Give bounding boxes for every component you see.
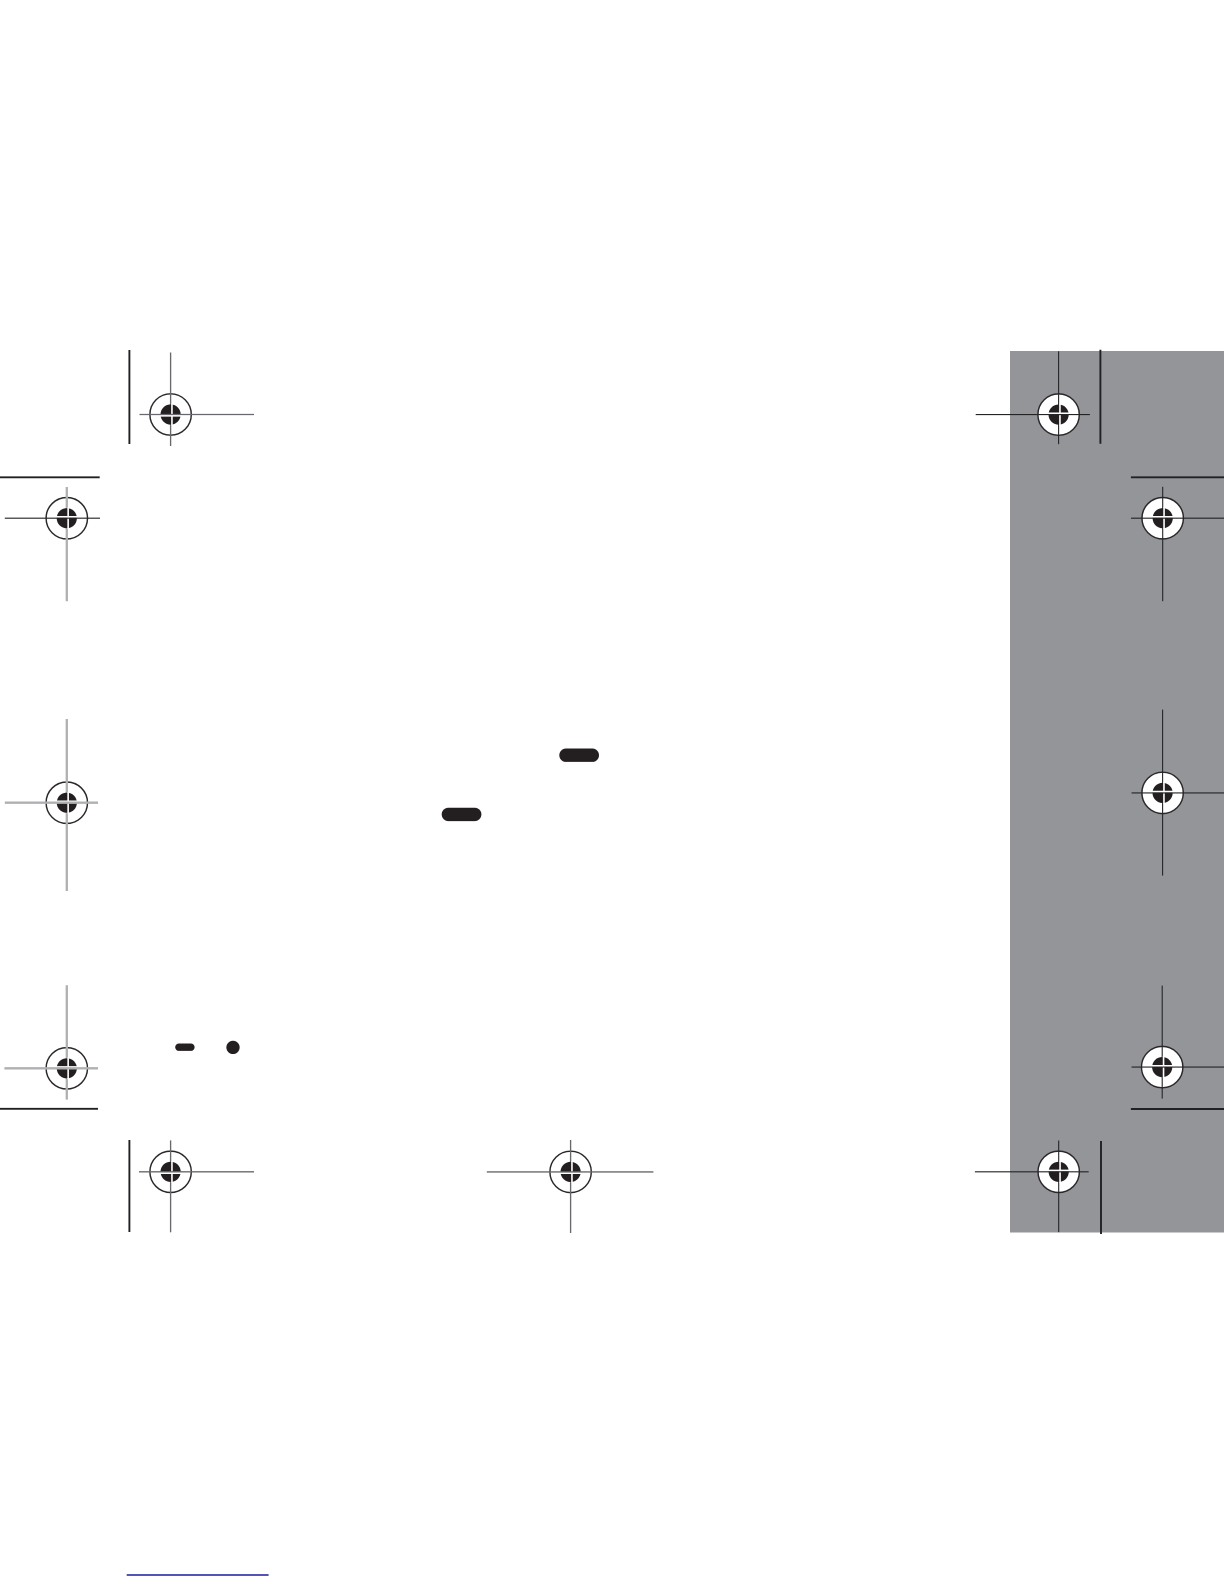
registration mark M9 right middle [1132,710,1224,876]
crop line bottom-right vertical [1100,1141,1102,1234]
crop line left-upper horizontal [0,476,100,478]
gray color bar [1010,351,1224,1233]
registration mark M6 bottom center [487,1140,654,1233]
crop line bottom-left vertical [128,1140,130,1232]
dash D3 [175,1044,194,1051]
registration mark M8 right upper [1131,487,1224,601]
crop line right-upper horizontal [1131,476,1224,478]
registration mark M1 top-left inner [140,353,255,447]
crop line top-left vertical [128,350,130,444]
registration mark M5 bottom-left inner [139,1140,254,1232]
registration mark M3 left middle [5,719,98,891]
dash D2 [442,808,482,821]
registration mark M7 top-right inner [976,351,1090,444]
registration mark M2 left upper [5,487,100,601]
crop line top-right vertical [1099,350,1101,444]
crop line left-lower horizontal [0,1108,98,1110]
registration mark M11 bottom-right inner [975,1141,1089,1233]
blue rule bottom-left [127,1574,269,1576]
crop line right-lower horizontal [1131,1108,1224,1110]
dash D1 [559,749,599,762]
dot D4 [226,1041,239,1054]
registration mark M4 left lower [4,985,98,1099]
registration mark M10 right lower [1132,986,1224,1099]
